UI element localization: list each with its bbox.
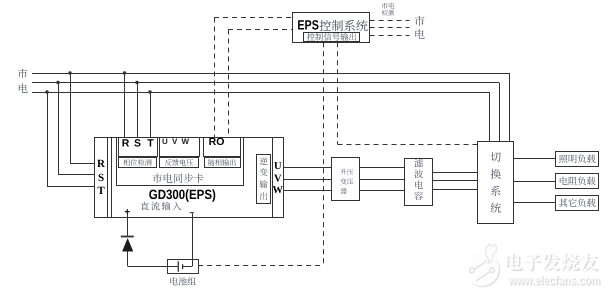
wire mains T drop to switch system [489, 92, 491, 142]
label 控制系统 [320, 20, 368, 31]
svg-text:RO: RO [209, 136, 225, 148]
block sync pin box RO [204, 138, 241, 157]
wire T tap to GD300 T pin [47, 92, 94, 187]
label GD300(EPS) [149, 187, 216, 202]
block GD300(EPS) inverter outer box [95, 138, 284, 218]
divider RST input strip [107, 137, 109, 217]
watermark www.elecfans.com [507, 272, 601, 288]
wire switch to lighting load [514, 158, 556, 160]
wire mains S drop to switch system [499, 83, 501, 143]
svg-text:EPS: EPS [297, 17, 319, 32]
block battery box 电池组 [168, 260, 199, 274]
wire mains R drop to switch system [509, 73, 511, 142]
block 升压变压器 (step-up transformer) [332, 158, 360, 201]
wire mains phase R horizontal [32, 73, 509, 75]
divider inner left [111, 137, 113, 217]
battery internal wire [167, 266, 192, 268]
battery plate short [182, 264, 184, 269]
label 市电检测 (mains detection) [382, 3, 395, 16]
label 照明负载 [559, 154, 595, 163]
label 电阻负载 [560, 177, 596, 186]
dashed wire RO to EPS (line 2) [228, 30, 293, 138]
battery plate long [177, 261, 179, 272]
label 滤波电容 vertical [414, 159, 423, 200]
block 电阻负载 (resistive load) [556, 174, 599, 189]
dashed control wire to battery [198, 42, 323, 265]
junction R to GD300 [68, 71, 71, 74]
label 控制信号输出 [307, 33, 357, 41]
svg-text:GD300(EPS): GD300(EPS) [149, 187, 216, 202]
wire - terminal down to battery [192, 213, 194, 266]
wire switch to other load [514, 202, 556, 204]
block sync pin box UVW [160, 138, 200, 157]
watermark logo disc [464, 244, 500, 287]
junction R to sync card [123, 71, 126, 74]
diode D1 triangle [122, 238, 133, 252]
block control signal output box [304, 33, 360, 42]
svg-text:W: W [273, 185, 284, 196]
block sync pin box RST [119, 138, 158, 157]
dashed control wire to switch system [338, 42, 478, 144]
svg-text:R: R [97, 158, 106, 170]
svg-text:S: S [134, 137, 141, 149]
wire R tap to GD300 R pin [70, 73, 94, 164]
net label mains 市电 (left) [18, 69, 28, 93]
label 反馈电压 (feedback voltage) [165, 159, 193, 166]
junction S to sync card [135, 81, 138, 84]
net label mains 市电 (top right) [415, 16, 425, 39]
wire V output to transformer [283, 179, 331, 181]
junction S to GD300 [56, 81, 59, 84]
dashed wire mains detect 2 [370, 27, 410, 29]
pin label V [274, 174, 282, 185]
block label box 随相输出 [205, 158, 241, 168]
dashed wire mains detect 1 [370, 20, 410, 22]
svg-text:–: – [189, 207, 194, 217]
dashed wire mains detect 3 [370, 35, 410, 37]
wire transformer to filter U [359, 167, 405, 169]
label 相位检测 (phase detect) [123, 159, 151, 166]
divider UVW output strip [272, 137, 274, 217]
svg-text:U V W: U V W [162, 137, 190, 146]
wire mains phase T horizontal [32, 92, 489, 94]
wire T tap to sync card T pin [150, 92, 152, 137]
pin label RO [209, 136, 225, 148]
label 随相输出 (phase-follow output) [208, 159, 236, 166]
wire R tap to sync card R pin [124, 73, 126, 137]
watermark 电子发烧友 [506, 253, 600, 272]
terminal + [124, 207, 130, 218]
dashed wire RO to EPS (line 1) [214, 18, 293, 138]
label 直流输入 (DC input) [141, 202, 182, 211]
pin label U [274, 161, 282, 172]
wire + terminal down to diode [127, 213, 129, 236]
block EPS control system box [293, 13, 370, 43]
wire S tap to GD300 S pin [58, 83, 94, 175]
wire transformer to filter W [359, 190, 405, 192]
wire transformer to filter V [359, 179, 405, 181]
pin label R [97, 158, 106, 170]
block label box 反馈电压 [160, 158, 199, 168]
wire switch to resistive load [514, 181, 556, 183]
pin labels R S T on sync card [122, 137, 155, 149]
svg-text:T: T [97, 185, 105, 197]
block 切换系统 (switching system) [478, 142, 514, 224]
block 滤波电容 (filter capacitor) [405, 159, 433, 206]
block 逆变输出 (inverter output) [257, 155, 271, 204]
wire filter to switch W [433, 189, 478, 191]
pin label W [273, 185, 284, 196]
label 切换系统 vertical [491, 152, 501, 213]
block 照明负载 (lighting load) [556, 152, 599, 167]
svg-text:R: R [122, 137, 130, 149]
terminal - [189, 207, 194, 217]
label 其它负载 [559, 198, 596, 207]
block 其它负载 (other load) [556, 196, 599, 211]
svg-text:www.elecfans.com: www.elecfans.com [507, 272, 600, 287]
label 逆变输出 vertical [260, 157, 268, 200]
label 升压变压器 [340, 169, 353, 194]
pin label T [97, 185, 105, 197]
svg-text:U: U [274, 161, 282, 172]
wire mains phase S horizontal [32, 82, 499, 84]
wire S tap to sync card S pin [137, 83, 139, 138]
block label box 相位检测 [119, 158, 157, 168]
label EPS control system [297, 17, 319, 32]
junction T to GD300 [45, 90, 48, 93]
wire W output to transformer [283, 190, 331, 192]
wire filter to switch U [433, 172, 478, 174]
svg-text:S: S [98, 172, 104, 184]
svg-text:V: V [274, 174, 282, 185]
label 市电同步卡 [152, 173, 203, 183]
block mains sync card box [117, 138, 244, 186]
wire U output to transformer [283, 167, 331, 169]
pin label S [98, 172, 104, 184]
svg-text:T: T [147, 137, 154, 149]
junction T to sync card [148, 90, 151, 93]
label 电池组 (battery pack) [170, 277, 196, 285]
pin labels U V W on sync card [162, 137, 190, 146]
wire filter to switch V [433, 180, 478, 182]
diode D1 cathode bar [121, 236, 134, 238]
wire diode to battery [128, 252, 168, 267]
